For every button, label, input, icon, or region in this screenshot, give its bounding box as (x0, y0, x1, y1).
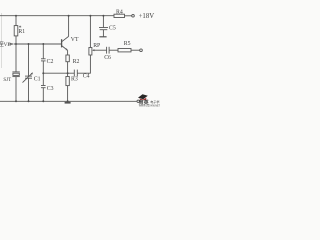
junction dots (15, 15, 104, 103)
wire C5 column (102, 16, 104, 28)
resistor R4 (114, 14, 125, 17)
node base line x16 (15, 43, 17, 45)
capacitor C3 (41, 86, 46, 88)
wire C4 to RP bottom (77, 55, 90, 73)
wire collector to top rail (68, 16, 70, 37)
wire C2 column upper (42, 44, 44, 59)
node base line C2 (42, 43, 44, 45)
wire R5 to output terminal (131, 49, 140, 51)
wire VD arrow (8, 43, 14, 45)
wire node line (43, 72, 74, 74)
wire RP wiper arrow (92, 49, 107, 51)
svg-text:VT: VT (71, 37, 79, 43)
resistor R1 (14, 26, 18, 36)
wire C1 to bottom rail (28, 78, 30, 101)
wire base line to crystal (15, 44, 17, 72)
capacitor C1 (variable) (23, 73, 33, 83)
svg-text:R3: R3 (71, 77, 78, 83)
wire node to C3 (42, 73, 44, 85)
ground symbol bottom (65, 102, 71, 104)
wire C6 to R5 (109, 49, 118, 51)
svg-text:电子学习: 电子学习 (150, 99, 160, 104)
wire crystal to bottom rail (15, 77, 17, 102)
wire R3 top (67, 73, 69, 76)
node top rail collector (68, 15, 70, 17)
watermark logo (138, 94, 162, 107)
svg-text:WWW.DZXXW.NET: WWW.DZXXW.NET (139, 105, 160, 108)
capacitor C6 (107, 47, 110, 54)
terminal bottom right (137, 100, 139, 102)
svg-text:R5: R5 (124, 41, 131, 47)
svg-text:C3: C3 (47, 86, 54, 92)
node mid line C2C3 (42, 72, 44, 74)
wire C3 to bottom rail (42, 88, 44, 102)
ground symbol under C5 (99, 36, 106, 38)
labels (0, 9, 154, 92)
svg-text:C1: C1 (34, 76, 41, 82)
wire R1 column upper (15, 16, 17, 26)
svg-text:+18V: +18V (139, 13, 155, 20)
svg-text:VD: VD (4, 42, 12, 48)
wire RP column upper (89, 16, 91, 48)
node top rail RP (89, 15, 91, 17)
wire emitter to R2 (67, 50, 69, 55)
capacitor C2 (41, 59, 46, 61)
svg-text:SJT: SJT (3, 78, 11, 83)
node bottom rail R3 (67, 100, 69, 102)
transistor VT (62, 36, 69, 50)
node top rail x16 (15, 15, 17, 17)
capacitor C4 (74, 70, 77, 77)
svg-text:RP: RP (93, 43, 100, 49)
wire R4 to +18V terminal (125, 15, 132, 17)
wire C5 to ground (102, 30, 104, 37)
wire C2 to node line (42, 61, 44, 73)
resistor R3 (66, 77, 69, 86)
capacitor C5 (99, 28, 108, 30)
resistor R2 (66, 55, 69, 62)
scan edge artifact left (1, 13, 3, 68)
svg-text:C4: C4 (83, 73, 90, 79)
wire R2 to node line (67, 62, 69, 73)
wire C1 column upper (28, 44, 30, 76)
node bottom rail C3 (42, 100, 44, 102)
wire base line (14, 43, 62, 45)
crystal SJT (12, 72, 19, 77)
svg-text:R2: R2 (73, 59, 80, 65)
svg-text:R1: R1 (18, 29, 25, 35)
wire top supply rail (0, 15, 114, 17)
wire R3 to bottom rail (67, 86, 69, 102)
svg-text:C6: C6 (104, 55, 111, 61)
node bottom rail C1 (28, 100, 30, 102)
resistor R5 (118, 49, 131, 52)
potentiometer RP (89, 48, 92, 56)
terminal output mid right (140, 49, 143, 52)
terminal +18V (132, 15, 135, 18)
node bottom rail x16 (15, 100, 17, 102)
wire R1 to base line (15, 36, 17, 44)
svg-text:C2: C2 (47, 59, 54, 65)
svg-text:C5: C5 (109, 26, 116, 32)
node mid line R2R3 (67, 72, 69, 74)
wire bottom ground rail (0, 100, 137, 102)
node base line C1 (28, 43, 30, 45)
node top rail C5 (102, 15, 104, 17)
svg-text:R4: R4 (116, 9, 123, 15)
watermark cap icon (138, 94, 148, 99)
